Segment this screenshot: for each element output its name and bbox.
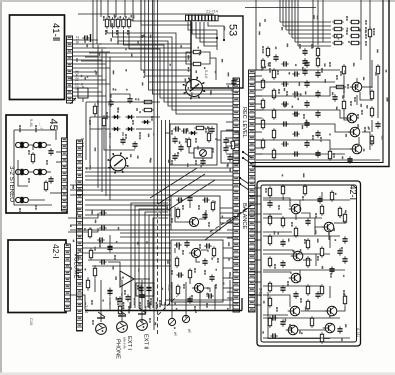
resistor R63 [142,100,153,103]
capacitor C83 [267,200,272,207]
svg-text:EXT Ⅱ: EXT Ⅱ [143,334,149,349]
diode D6 [189,131,198,135]
resistor R8e [320,284,323,295]
transistor Q18 [323,323,335,333]
jack PHONE [96,324,107,335]
transistor Q21 [187,217,199,226]
vertical bundle from J1 [97,45,99,188]
resistor R818 [268,296,271,307]
switch K1 [243,152,252,158]
capacitor C820 [315,291,320,298]
smudges tr area [299,44,301,49]
module box 41-II [10,15,65,100]
capacitor C426b [281,141,288,146]
capacitor C64 [173,126,180,131]
resistor R22 [191,62,202,65]
module box 53 [191,16,243,88]
top-right vertical bundle [279,0,281,22]
strip J1 stubs [73,39,99,41]
capacitor C66 [172,136,177,143]
smudge rows bottom-mid [117,298,119,305]
transistor Q1 [350,82,362,92]
resistor R8a [320,204,323,215]
capacitor C78 [139,292,144,299]
resistor R91 [211,200,214,211]
rotary switch S2 [108,153,129,174]
smudge R edge [373,28,375,35]
transistor Q23 [192,283,204,292]
dashed diagonal [210,205,252,232]
resistor R81 [281,184,284,195]
socket ANT1 [168,318,175,325]
connector strip rec level right [249,70,256,312]
stubs amp boxes to ladder [223,247,233,249]
capacitor C56 [347,156,352,163]
capacitor C1 top [82,35,89,40]
capacitor C45b [292,71,299,76]
module box 45 [6,115,67,213]
horizontal rails below amp [120,232,233,234]
connector strip J1 [67,36,73,103]
resistor R85 [281,216,284,227]
42-I wiring [263,198,290,207]
capacitor C88 [342,236,347,243]
resistor R80 [268,186,271,197]
cap pair box [136,283,154,296]
top verticals [100,0,102,17]
resistor R82 [303,184,306,195]
junction dot [223,39,225,41]
resistor R55 [342,99,345,110]
resistor R819 [306,299,309,310]
capacitor C48b [281,81,288,86]
transistor Q2 [345,113,357,123]
capacitor C69 [200,158,205,165]
dash-dot diagonal lower [158,296,177,315]
smudges cluster [171,130,173,135]
capacitor C415 [304,100,309,107]
resistor R62 [93,103,96,116]
horizontal rail top-right [245,7,316,9]
wiring inside 45 [14,130,56,140]
capacitor C72 [99,210,106,215]
diode D1 [112,115,121,119]
smudges lower-left [99,240,101,247]
transistor Q13 [291,251,303,261]
capacitor C97 [204,243,211,248]
amp stage 1 loop [171,196,220,230]
capacitor C45b [48,176,53,183]
resistor R824 [343,294,346,305]
resistor R31 [316,46,319,57]
resistor R73 [118,304,121,315]
capacitor C825 [342,256,347,263]
verticals feeding amp stages [161,120,163,305]
capacitor C46 [315,70,320,77]
capacitor C430 [315,150,320,157]
svg-text:VOLUME: VOLUME [73,253,79,278]
capacitor C81 [117,296,122,303]
resistor R45a [31,152,34,163]
capacitor C414b [281,101,288,106]
svg-text:REC LEVEL: REC LEVEL [241,107,247,138]
electrolytic C79 [138,285,143,294]
extra ladder stubs [226,83,233,85]
capacitor C822 [280,319,285,326]
capacitor C810 [280,239,285,246]
resistor R815 [268,281,271,292]
wires amp2 [174,248,176,253]
module 42-I borders [257,181,361,346]
capacitor C813 [280,260,285,267]
horizontal wires y44-60 [97,43,191,45]
transistor Q11 [289,204,301,214]
capacitor C86 [305,218,310,225]
connector row top [186,15,219,21]
resistor R74 [88,227,91,238]
resistor R75 [89,248,92,259]
capacitor C77 [125,294,130,301]
resistor R71 [93,265,96,278]
rotary switch S1 [183,77,205,99]
wires cluster [165,132,170,134]
resistor R edge [368,26,371,39]
transformer T5 [15,197,29,203]
stubs into upper module [256,69,263,71]
transistor Q4 [350,144,362,154]
connector strip J3 [65,244,71,311]
svg-text:53: 53 [227,24,239,36]
transistor Q16 [325,306,337,316]
capacitor C73 [99,225,106,230]
upper module borders [252,0,383,163]
svg-text:21-714: 21-714 [206,10,218,14]
amp stage 2 loop [171,240,223,302]
sub-circuit box [170,124,217,165]
smudges bank [365,20,367,25]
capacitor C93 [202,197,209,202]
smudges left-center [97,100,99,107]
resistor R53 [370,134,373,145]
transistor Q22 [189,248,201,257]
resistor R416 [272,108,275,119]
bends from resistor row [107,30,234,114]
resistor R66 [187,137,190,148]
stubs into 42-I [248,195,261,197]
capacitor C427 [304,140,309,147]
resistor R94 [175,256,178,267]
capacitor C65 [181,128,188,133]
resistor R93 [212,246,215,257]
scattered value-label smudges [70,14,388,342]
resistor R72 [86,277,89,290]
capacitor C67 [178,144,183,151]
resistor R827 [330,190,333,201]
stubs amp1 to ladder [220,207,234,209]
capacitor C8d [337,248,342,255]
diode D5 [142,120,151,124]
wires left-center [86,101,160,103]
diode D4 [126,127,135,131]
resistor R425 [261,138,264,149]
capacitor C828 [337,326,342,333]
42-I extra mesh [263,199,350,201]
capacitor C61 [108,99,113,106]
resistor R812 [268,256,271,267]
smudges amp1 [182,205,184,210]
wires right part module [371,60,373,88]
long right verticals [360,0,362,60]
transformer T4 [33,169,47,175]
wires amp1 [175,207,188,222]
capacitor C71b [223,145,228,152]
capacitor C424 [315,130,320,137]
capacitor C417b [292,111,299,116]
resistor R45b [44,180,47,191]
arrow mark [70,98,76,104]
nested wire bundle center [141,0,191,70]
capacitor C55 [332,94,337,101]
resistor R419 [261,118,264,129]
resistor R829 [320,332,323,343]
socket ANT2 [182,315,189,322]
wire cluster to bottom [131,203,168,308]
smudges top row [103,16,105,21]
capacitor C411b [292,91,299,96]
capacitor C45a [48,148,53,155]
module smudges [329,62,331,67]
sub-circuit box 2 [221,131,239,163]
capacitor C63 [132,141,137,148]
resistor R821 [268,316,271,327]
electrolytic C76 [107,288,112,297]
capacitor C75 [99,259,106,264]
svg-text:EXT Ⅰ: EXT Ⅰ [126,336,132,350]
transistor Q15 [288,306,300,316]
resistor R84 [268,214,271,225]
resistor R56 [328,149,331,160]
wiring in 53 [188,22,217,30]
resistor R57 [376,64,379,75]
connector strip J2 [62,138,68,211]
capacitor C421 [304,120,309,127]
transistor Q17 [286,325,298,335]
capacitor C418 [315,110,320,117]
capacitor C100 [209,274,214,281]
electrolytic C80 [146,285,151,294]
capacitor C99 [176,272,183,277]
capacitor C33 [302,68,307,75]
svg-text:C15: C15 [29,318,34,326]
transistor Q14 [289,273,301,283]
transistor Q3 [348,127,360,137]
resistor bank [332,20,343,23]
capacitor C71c [227,154,232,161]
bends to resistor bank [280,21,331,23]
capacitor C98 [202,258,207,265]
capacitor C49 [304,80,309,87]
capacitor C43 [304,60,309,67]
capacitor C8h [293,291,298,298]
capacitor C95 [174,242,181,247]
electrolytic C74 [107,244,112,253]
capacitor C826 [317,196,322,203]
smudge bottom [92,320,94,325]
bottom bus wires [70,295,85,310]
resistor R823 [310,316,313,327]
resistor R52 [370,106,373,117]
resistor R32 [316,56,319,67]
resistor R422 [272,128,275,139]
svg-text:＿-7: ＿-7 [39,122,44,130]
resistor R54 [342,64,345,75]
resistor R8c [320,246,323,257]
resistor R8g [294,226,297,237]
resistor R8b [338,206,341,217]
resistor R413 [261,98,264,109]
svg-text:42-Ⅰ: 42-Ⅰ [348,185,358,201]
diode D3 [112,127,121,131]
resistor R27 [266,46,269,57]
resistor R410 [272,88,275,99]
capacitor C94 [202,212,207,219]
svg-text:A-141: A-141 [356,328,360,337]
svg-text:BALANCE: BALANCE [241,203,247,229]
amplifier A1 [120,271,134,287]
resistor R64 [142,108,153,111]
connector strip rec level left [233,78,240,312]
transformer T1 [15,142,29,148]
vertical bus x256 [255,0,257,70]
resistor R89 [268,234,271,245]
resistor row top [105,17,108,28]
svg-text:45: 45 [47,119,59,131]
capacitor C57 [375,121,380,128]
resistor R428 [272,148,275,159]
svg-text:PHONE: PHONE [115,339,121,359]
resistor R67 [207,131,210,142]
trimmer box [194,148,212,158]
transformer T2 [33,142,47,148]
diode D2 [126,115,135,119]
wires lower-left [68,213,98,218]
resistor R87 [343,212,346,223]
relay box K0 [78,88,88,98]
transformer T3 [15,169,29,175]
resistor R33 [334,85,346,88]
capacitor C8f [329,266,334,273]
chassis bus [85,310,242,312]
resistor R814 [306,256,309,267]
capacitor C102 [206,293,213,298]
capacitor C32 [302,58,307,65]
resistor R811 [306,238,309,249]
jack EXT I [117,322,128,333]
capacitor C429b [292,151,299,156]
resistor R817 [306,284,309,295]
42-I inner left loop [268,292,330,339]
svg-text:5-81: 5-81 [29,119,34,128]
capacitor C816 [280,285,285,292]
capacitor C68 [172,153,177,160]
resistor R21 [191,50,202,53]
long vertical pair [153,0,155,330]
resistor R44 [272,68,275,79]
smudges amp2 [182,250,184,255]
capacitor C60 [127,96,132,103]
resistor R61 [102,115,105,128]
capacitor C42b [281,61,288,66]
svg-text:42-Ⅰ: 42-Ⅰ [51,244,61,259]
svg-text:41-Ⅱ: 41-Ⅱ [50,23,61,41]
svg-text:5-1-6: 5-1-6 [204,70,208,78]
capacitor C91 [176,197,183,202]
capacitor C71a [223,137,228,144]
resistor R92 [176,207,179,218]
jack feed wires [100,280,102,322]
resistor R41 [261,58,264,69]
module wiring [256,69,340,71]
capacitor C53a [231,78,236,85]
module box 42-I left [8,240,66,313]
diagonal wires [150,168,197,198]
svg-text:ʌʎʌ-ɛ-ʎʌ: ʌʎʌ-ɛ-ʎʌ [123,337,127,349]
resistor R95 [188,268,191,279]
capacitor C92 [187,195,192,202]
capacitor C412 [315,90,320,97]
capacitor C31 [302,48,307,55]
capacitor C96 [184,240,189,247]
resistor R96 [176,284,179,295]
text smudges in 45 [19,125,21,132]
capacitor C27 [273,54,278,61]
resistor R68 [231,139,234,150]
capacitor C62 [120,137,125,144]
capacitor C82 [97,237,104,242]
jack contacts [97,317,105,319]
capacitor C70 [209,126,214,133]
text R21 value [188,55,190,60]
bus bundle middle [85,167,233,169]
capacitor C101 [187,296,192,303]
resistor R51 [370,89,373,100]
bus bundle lower [70,224,171,226]
42-I smudges [265,188,267,193]
jack EXT II [137,320,148,331]
capacitor C423b [292,131,299,136]
capacitor C420b [281,121,288,126]
horizontal rail top [78,13,214,15]
resistor R65 [194,126,205,129]
switch K2 [240,178,249,184]
transistor Q12 [322,222,334,232]
text R27 [262,46,264,53]
resistor R47 [261,78,264,89]
connector strip volume slider [77,140,83,331]
